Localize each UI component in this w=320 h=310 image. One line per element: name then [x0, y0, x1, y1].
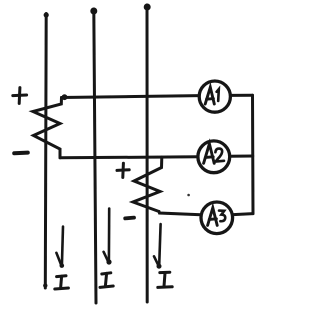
ammeter A3	[201, 202, 233, 234]
current arrow I3 (beside line 3)	[154, 224, 162, 269]
wire: node from R2 bottom to ammeter A3 left terminal	[159, 212, 201, 215]
resistor R2 (shunt on line 3, zigzag)	[133, 157, 162, 211]
junction: dot at R1 top tap	[62, 94, 68, 100]
wire: node from R1 bottom to ammeter A2 left terminal	[60, 157, 198, 158]
ammeter A1	[199, 81, 230, 112]
current arrow I2 (beside line 2)	[104, 209, 112, 265]
wire: right bus vertical segment	[251, 95, 255, 213]
label: plus polarity of R1	[13, 88, 27, 104]
label: current I of line 2	[100, 273, 113, 288]
label: ammeter A2 text	[204, 144, 224, 164]
wire: middle feeder conductor (line 2)	[94, 9, 96, 303]
junction: bottom end blob of line 1	[43, 283, 47, 287]
wire: left feeder conductor (line 1)	[44, 14, 48, 289]
label: ammeter A3 text	[208, 208, 226, 226]
junction: top terminal dot of line 2	[90, 8, 97, 15]
wire: right bus to A3 right terminal	[234, 214, 254, 215]
wire: A1 right terminal to right bus	[231, 94, 253, 97]
current arrow I1 (beside line 1)	[56, 227, 64, 268]
resistor R1 (shunt on line 1, zigzag)	[33, 98, 62, 158]
ammeter A2	[198, 141, 230, 173]
junction: top terminal dot of line 1	[44, 12, 49, 17]
label: current I of line 3	[158, 272, 172, 287]
label: current I of line 1	[55, 276, 69, 289]
junction: top terminal dot of line 3	[144, 4, 151, 11]
label: minus polarity of R2	[125, 216, 134, 221]
wire: right feeder conductor (line 3)	[146, 5, 149, 302]
wire: node from R1 top to ammeter A1 left terminal	[62, 96, 200, 98]
wire: A2 right terminal to right bus	[230, 155, 253, 158]
label: plus polarity of R2	[117, 163, 129, 177]
junction: stray ink speck left of A3	[187, 194, 190, 197]
label: ammeter A1 text	[205, 87, 219, 104]
label: minus polarity of R1	[14, 151, 28, 156]
